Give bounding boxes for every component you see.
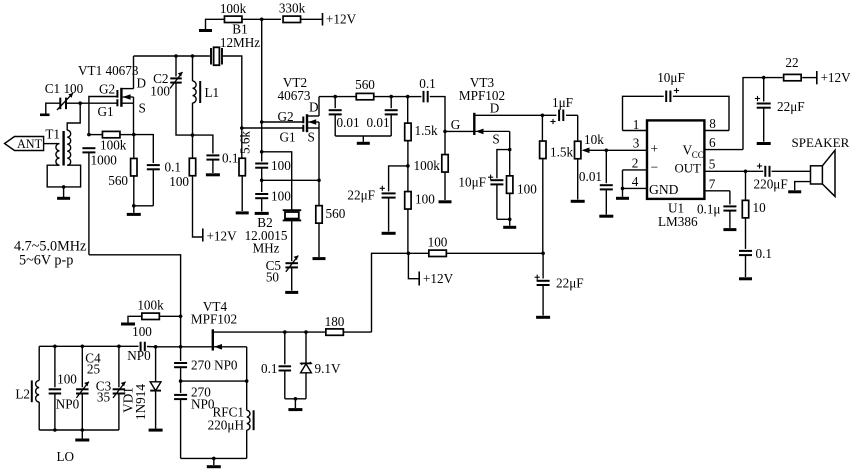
wire pin6 Vcc up [743, 78, 764, 150]
wire 100k to node [242, 18, 262, 20]
capacitor 1000 (bypass) [82, 148, 117, 167]
svg-text:NP0: NP0 [56, 397, 80, 412]
wire VT4 source bottom [181, 457, 247, 459]
capacitor C2 100 (variable) [150, 56, 182, 99]
resistor 1.5k (VT2 drain load) [405, 97, 438, 141]
svg-text:100: 100 [271, 158, 291, 173]
svg-text:NP0: NP0 [127, 348, 151, 363]
svg-text:5~6V p-p: 5~6V p-p [19, 253, 73, 269]
svg-text:3: 3 [633, 136, 640, 151]
node AE (tank bottom left) [53, 428, 57, 432]
transformer T1 core [62, 131, 64, 166]
node R (VT3 gate) [443, 117, 461, 133]
svg-text:0.1: 0.1 [756, 246, 772, 261]
svg-text:40673: 40673 [278, 88, 311, 103]
node AC (100 NP0 top) [53, 345, 57, 349]
svg-text:1: 1 [633, 117, 640, 132]
node U (pin3 node) [605, 149, 648, 153]
capacitor C5 50 (variable trimmer) [266, 220, 299, 284]
capacitor 0.01 (tone) [579, 150, 613, 216]
node AH (S/RFC1) [245, 379, 249, 383]
svg-text:100k: 100k [220, 1, 247, 16]
resistor 100k (VT3 gate leak) [439, 131, 452, 201]
label LO [57, 449, 75, 464]
wire 0.1 to VT3 gate [430, 97, 445, 132]
ground (0.01 pair) [335, 136, 391, 143]
antenna terminal ANT [5, 137, 44, 152]
svg-text:VT1 40673: VT1 40673 [78, 63, 139, 78]
svg-text:+: + [651, 141, 659, 156]
node AK (zener tap) [285, 330, 308, 334]
node J (VT2 G2) [260, 120, 303, 124]
crystal B2 12.0015MHz [245, 210, 302, 255]
svg-text:+12V: +12V [423, 271, 454, 286]
svg-text:10μF: 10μF [657, 70, 685, 85]
node E + ground (VT1 source) [127, 176, 154, 214]
capacitor 1uF (coupling) [542, 95, 577, 124]
svg-text:2: 2 [632, 156, 639, 171]
node Z (VT4 bias tap) [179, 315, 183, 319]
pin 5 [704, 157, 745, 172]
capacitor 10uF (bootstrap pins 1-8) [623, 70, 730, 131]
wire 270 node to VT4 S [181, 380, 247, 382]
capacitor 10uF (VT3 source bypass) [458, 150, 509, 220]
svg-text:L1: L1 [205, 85, 220, 100]
svg-text:+12V: +12V [326, 12, 357, 27]
wire B1 node to VT2 G1 [242, 127, 304, 129]
capacitor 270 NP0 (upper) [174, 347, 238, 373]
inductor L2 [15, 346, 39, 430]
svg-text:100k: 100k [100, 138, 127, 153]
resistor 560 (VT2 source) [313, 180, 346, 258]
node AG (between 270s) [179, 367, 183, 383]
svg-text:100: 100 [415, 192, 435, 207]
node AI (bottom gnd tap) [212, 457, 216, 461]
crystal B1 12MHz [211, 22, 260, 66]
svg-text:50: 50 [266, 270, 280, 285]
resistor 5.6k (VT2 G1 bias) [236, 128, 253, 213]
transistor VT1 40673 (dual-gate MOSFET) [78, 56, 146, 135]
svg-text:S: S [308, 130, 315, 145]
ground (T1) [57, 187, 70, 198]
pin 4 [623, 174, 648, 189]
svg-text:270 NP0: 270 NP0 [191, 358, 238, 373]
svg-text:9.1V: 9.1V [315, 361, 341, 376]
node C (VT1 G2 bias node) [87, 133, 91, 137]
wire crystal B1 to VT2 G1 line [222, 56, 242, 128]
resistor 1.5k (VT3 drain load) [540, 115, 574, 253]
capacitor 100 NP0 (tank) [49, 346, 80, 430]
svg-text:22μF: 22μF [347, 188, 375, 203]
svg-text:0.1μ: 0.1μ [697, 202, 721, 217]
node AD (C4 top) [81, 345, 85, 349]
transistor VT4 MPF102 (JFET LO) [181, 329, 285, 380]
wire cap node to VT2 S [262, 179, 319, 181]
wire rail from 180 corner [372, 253, 409, 332]
diode VD1 1N914 [121, 347, 163, 430]
wire VT1 G2 to bias node [89, 97, 118, 135]
svg-text:G1: G1 [279, 130, 295, 145]
node K (cap divider top) [260, 150, 264, 154]
svg-text:G: G [451, 117, 461, 132]
resistor 10 (Zobel) [742, 171, 766, 249]
node F (C2 tap on crystal wire) [174, 54, 178, 58]
node S (VT3 source) [508, 148, 512, 152]
svg-text:1.5k: 1.5k [415, 123, 438, 138]
resistor 22 (Vcc feed) [764, 55, 801, 81]
svg-text:8: 8 [709, 116, 716, 131]
svg-text:−: − [651, 159, 659, 174]
wire LO tank bottom [39, 429, 119, 431]
node T (VT3 drain) [541, 114, 545, 118]
wire VT1 D to crystal B1 [134, 55, 210, 57]
resistor 100 (VT3 source) [507, 150, 538, 220]
node I (B1 output node) [240, 126, 244, 130]
svg-text:LO: LO [57, 449, 75, 464]
svg-text:ANT: ANT [17, 137, 43, 151]
resistor 560 (VT1 source) [108, 135, 137, 188]
label 4.7~5.0MHz [14, 239, 86, 255]
capacitor 22uF (Vcc bypass) [755, 78, 805, 144]
svg-text:100: 100 [517, 182, 537, 197]
wire zener/0.1 gnd join [285, 397, 306, 410]
transistor VT3 MPF102 (JFET) [445, 75, 542, 150]
wire C1 left to stub [40, 103, 60, 115]
capacitor 0.01 (right) [366, 97, 397, 136]
wire VT2 drain rail [319, 96, 335, 98]
wire 1000 cap down to LO line [88, 152, 90, 254]
resistor 100 (L1 to +12V) [169, 135, 195, 189]
svg-text:4: 4 [632, 174, 639, 189]
node P (1.5k tap) [406, 95, 421, 99]
svg-text:22: 22 [785, 55, 798, 70]
+12V terminal (VT1 stage) [193, 176, 238, 244]
wire LO tank top [39, 345, 121, 349]
svg-text:T1: T1 [45, 127, 60, 142]
svg-text:S: S [492, 132, 499, 147]
svg-text:330k: 330k [279, 1, 306, 16]
+12V terminal (top) [301, 12, 357, 27]
svg-text:560: 560 [326, 206, 346, 221]
resistor 100 (decoupling) [405, 166, 435, 253]
node AB (VD1 tap) [154, 345, 181, 349]
transistor VT2 40673 (dual-gate MOSFET) [277, 75, 319, 180]
svg-text:100: 100 [57, 372, 77, 387]
svg-text:0.1: 0.1 [419, 76, 435, 91]
resistor 100k (VT4 gate bias) [121, 298, 181, 325]
svg-text:22μF: 22μF [777, 99, 805, 114]
svg-text:100: 100 [428, 235, 448, 250]
resistor 330k (divider to +12V) [262, 1, 306, 23]
svg-text:7: 7 [709, 177, 716, 192]
svg-text:25: 25 [87, 362, 101, 377]
svg-text:6: 6 [709, 135, 716, 150]
node V (22uF/22 tap) [762, 76, 766, 80]
node AF (tank bottom mid) [81, 428, 85, 432]
svg-text:100: 100 [271, 189, 291, 204]
svg-text:+12V: +12V [207, 229, 238, 244]
resistor 180 (VT4 drain feed) [306, 314, 372, 335]
pin 6 [704, 135, 743, 150]
svg-text:5.6k: 5.6k [238, 131, 253, 154]
svg-text:0.1: 0.1 [222, 151, 238, 166]
node O (0.01 no.2 tap) [389, 95, 407, 99]
svg-text:GND: GND [649, 182, 679, 197]
wire divider node down to VT2 G2 [261, 19, 263, 122]
svg-text:CC: CC [692, 150, 704, 160]
node D (VT1 S node) [120, 133, 136, 137]
svg-text:0.1: 0.1 [261, 361, 277, 376]
capacitor 0.1 (VT4 supply bypass) [261, 332, 291, 399]
svg-text:1μF: 1μF [552, 95, 573, 110]
pin 7 [704, 177, 730, 192]
node X (+12V tap) [407, 252, 411, 256]
wire T1 bottom loop [47, 165, 80, 187]
wire C2 down [176, 83, 193, 136]
node AJ (0.1 tap) [283, 330, 287, 334]
inductor RFC1 220uH [208, 381, 254, 458]
svg-text:L2: L2 [15, 387, 30, 402]
+12V terminal (right) [802, 70, 850, 85]
pin 3 [633, 136, 640, 151]
transformer T1 primary winding [44, 144, 60, 166]
label T1 [45, 127, 60, 142]
ground (VT3 source) [497, 218, 516, 228]
speaker SPEAKER [788, 135, 849, 196]
capacitor 0.1 (drain bypass) [193, 135, 239, 175]
svg-text:OUT: OUT [675, 162, 701, 176]
capacitor C1 100 (variable) [45, 81, 84, 110]
svg-text:MHz: MHz [252, 241, 279, 256]
svg-text:12MHz: 12MHz [220, 35, 260, 50]
svg-text:G1: G1 [98, 104, 114, 119]
svg-text:D: D [309, 100, 319, 115]
svg-text:180: 180 [325, 314, 345, 329]
inductor L1 [193, 56, 220, 135]
svg-text:220μH: 220μH [208, 418, 245, 433]
capacitor 100 (G2 divider lower) [255, 180, 291, 213]
svg-text:560: 560 [355, 77, 375, 92]
svg-text:100: 100 [169, 174, 189, 189]
svg-text:NP0: NP0 [191, 397, 215, 412]
node N (0.01 no.1 tap) [333, 95, 356, 99]
capacitor 0.1 (VT1 source bypass) [134, 135, 181, 206]
labels VT4 MPF102 [191, 299, 237, 327]
capacitor 100 NP0 (LO coupling) [119, 324, 156, 363]
svg-text:10μF: 10μF [458, 175, 486, 190]
node Q (22uF tap) [406, 141, 440, 173]
diode 9.1V (zener) [301, 332, 341, 399]
ground (left of R 100k) [199, 19, 225, 30]
capacitor 0.1 (Zobel) [739, 246, 772, 279]
node AA (VT4 gate) [179, 316, 183, 348]
svg-text:0.01: 0.01 [336, 115, 359, 130]
pin 2 [623, 156, 648, 171]
svg-text:10k: 10k [584, 132, 604, 147]
node B (C1 / T1 / VT1 G1 junction) [66, 101, 82, 105]
svg-text:100k: 100k [137, 298, 164, 313]
capacitor 22uF (stage decoupling) [347, 166, 407, 233]
+12V terminal (rail) [408, 253, 453, 286]
potentiometer 10k (volume) [571, 115, 607, 201]
ground (C5) [285, 267, 298, 292]
svg-text:100: 100 [150, 84, 170, 99]
svg-text:D: D [490, 101, 500, 116]
capacitor 100 (G2 divider upper) [255, 122, 291, 173]
resistor 560 (interstage) [355, 77, 391, 100]
svg-text:220μF: 220μF [754, 177, 788, 192]
node M (VT2 S node) [317, 179, 321, 183]
wire pin2 to pin4 (grounded input) [616, 170, 629, 198]
node H (L1 / C2 / 100 junction) [191, 133, 195, 137]
svg-text:1N914: 1N914 [133, 384, 148, 420]
capacitor 270 NP0 (lower) [174, 381, 215, 458]
svg-text:0.1: 0.1 [165, 160, 181, 175]
wire LO injection line [89, 255, 181, 316]
svg-text:LM386: LM386 [658, 214, 698, 229]
capacitor C4 25 (variable) [76, 346, 101, 430]
node Y (22uF rail tap) [541, 252, 545, 256]
resistor 100k (VT2 G2 divider upper-left) [220, 1, 247, 23]
node G (L1 tap on crystal wire) [191, 54, 195, 58]
svg-text:1.5k: 1.5k [550, 145, 573, 160]
capacitor 0.1 (coupling to VT3) [419, 76, 435, 102]
svg-text:5: 5 [709, 157, 716, 172]
svg-text:100: 100 [132, 324, 152, 339]
op-amp U1 LM386 body [647, 120, 704, 229]
svg-text:560: 560 [108, 173, 128, 188]
ground (VT4 source) [207, 458, 221, 466]
capacitor 22uF (rail bypass) [535, 253, 584, 317]
pin 8 [704, 116, 729, 131]
svg-text:G2: G2 [99, 82, 115, 97]
capacitor 0.01 (left) [329, 97, 360, 136]
ground (LO tank) [75, 430, 89, 440]
svg-text:C1 100: C1 100 [45, 81, 84, 96]
svg-text:S: S [139, 101, 146, 116]
svg-text:10: 10 [753, 200, 767, 215]
svg-text:+12V: +12V [821, 70, 850, 85]
svg-text:1000: 1000 [91, 153, 118, 168]
resistor 100 (rail decoupling) [408, 235, 543, 257]
svg-text:MPF102: MPF102 [191, 312, 237, 327]
node T1 center tap [62, 185, 66, 189]
node W (OUT node) [744, 170, 748, 174]
svg-text:100k: 100k [414, 158, 441, 173]
node A (divider junction) [260, 18, 264, 22]
pin 1 [623, 117, 648, 132]
label 5~6V p-p [19, 253, 73, 269]
capacitor C3 35 (variable) [96, 346, 126, 430]
node L (between 100 caps) [260, 168, 264, 182]
capacitor 220uF (output coupling) [746, 163, 811, 191]
svg-text:D: D [137, 76, 147, 91]
transformer T1 secondary winding [67, 103, 80, 165]
wire VT1 G1 to C1 node [80, 102, 117, 104]
svg-text:SPEAKER: SPEAKER [792, 135, 850, 150]
svg-text:0.01: 0.01 [366, 115, 389, 130]
resistor 100k (VT1 bias) [89, 131, 127, 152]
svg-text:35: 35 [97, 390, 111, 405]
capacitor 0.1u (pin7 bypass) [697, 191, 736, 230]
wire cap node to B2 line [262, 152, 292, 210]
svg-text:22μF: 22μF [556, 276, 584, 291]
svg-text:0.01: 0.01 [579, 169, 602, 184]
